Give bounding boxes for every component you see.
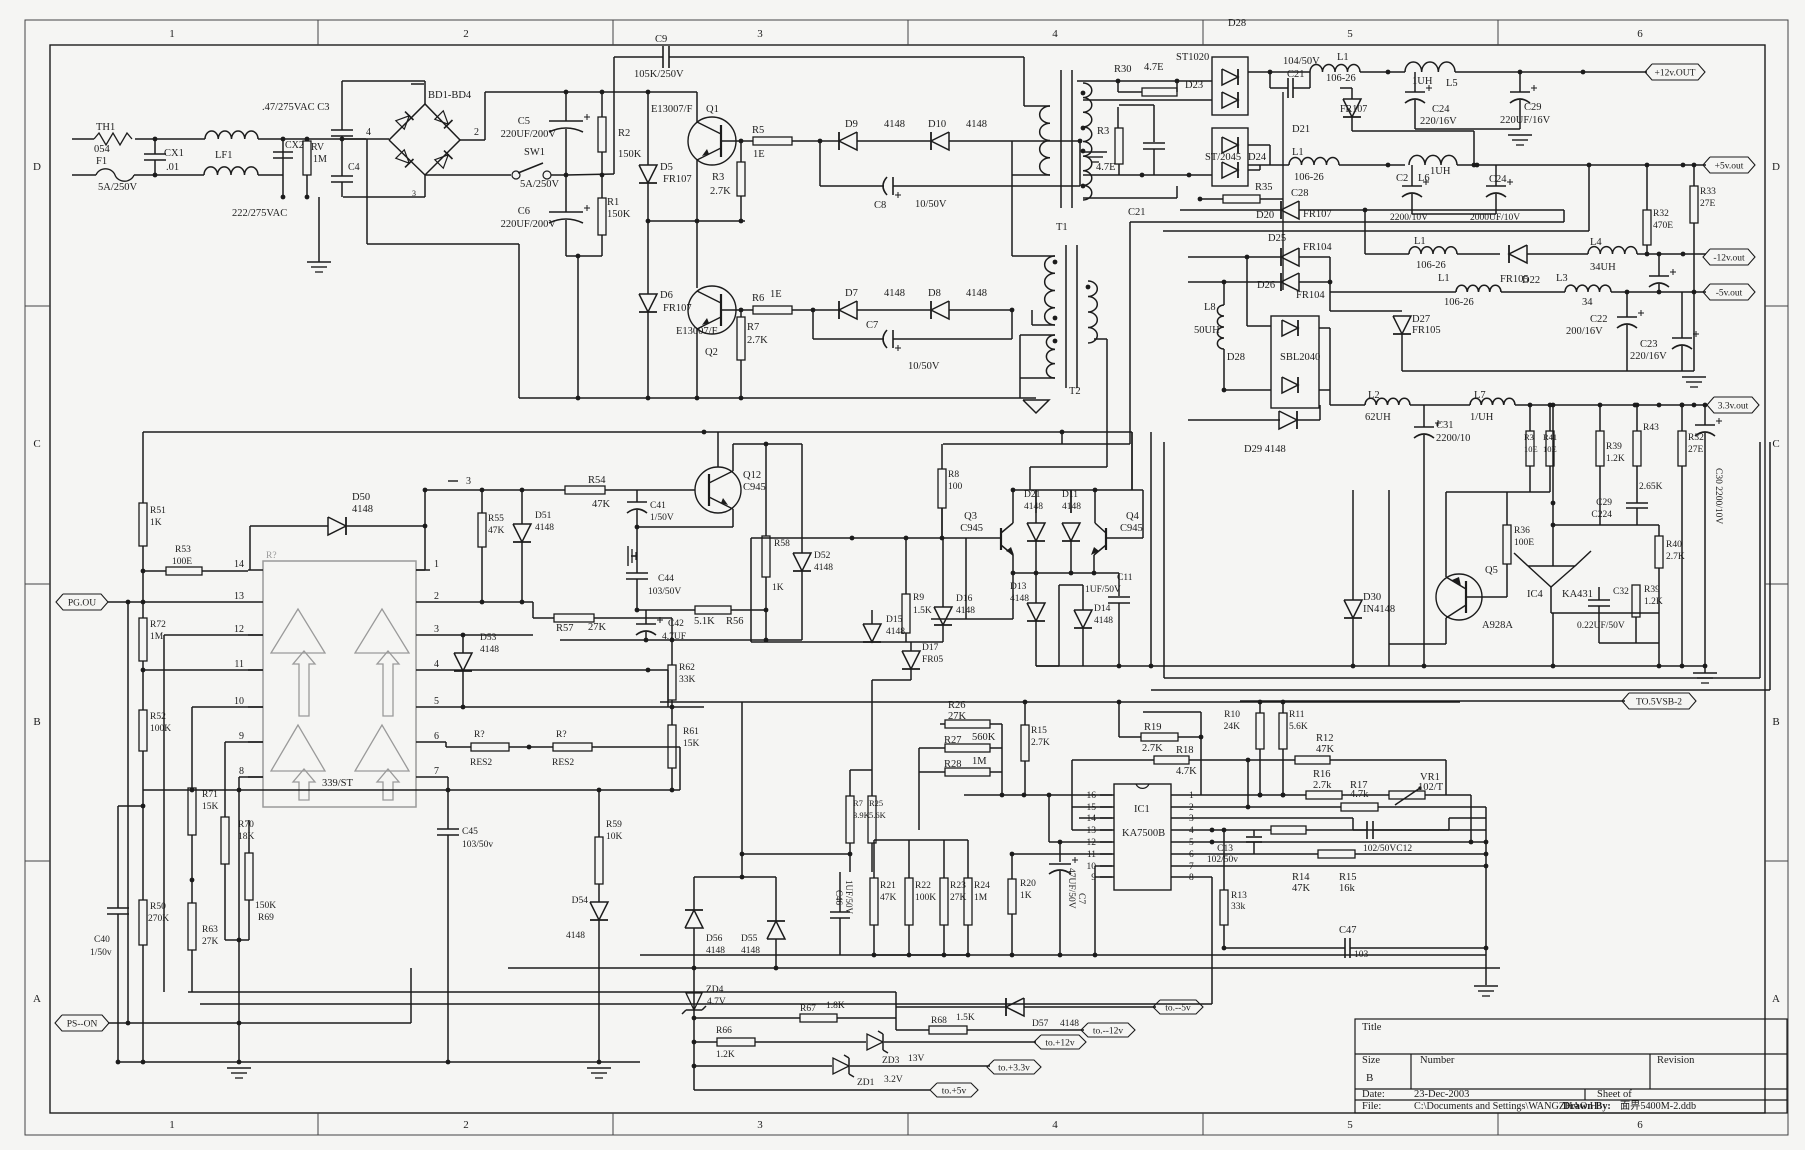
svg-text:6: 6 (434, 731, 439, 742)
svg-text:4148: 4148 (1094, 616, 1113, 626)
svg-text:100E: 100E (172, 557, 192, 567)
svg-text:103/50v: 103/50v (462, 840, 493, 850)
svg-text:13: 13 (1087, 826, 1097, 836)
svg-text:10: 10 (234, 696, 244, 707)
svg-text:R13: R13 (1231, 891, 1247, 901)
svg-text:ZD4: ZD4 (706, 985, 724, 995)
svg-text:D9: D9 (845, 119, 858, 130)
svg-text:ST/2045: ST/2045 (1205, 152, 1241, 163)
svg-text:4148: 4148 (1060, 1019, 1079, 1029)
svg-text:R68: R68 (931, 1016, 947, 1026)
svg-text:C9: C9 (655, 34, 667, 45)
svg-text:D29 4148: D29 4148 (1244, 444, 1286, 455)
svg-text:106-26: 106-26 (1444, 297, 1474, 308)
svg-text:3: 3 (434, 624, 439, 635)
svg-text:D10: D10 (928, 119, 946, 130)
svg-text:Revision: Revision (1657, 1055, 1695, 1066)
svg-text:C13: C13 (1217, 844, 1233, 854)
svg-text:4: 4 (1189, 826, 1194, 836)
svg-text:470E: 470E (1653, 221, 1673, 231)
svg-text:R27: R27 (944, 735, 962, 746)
svg-text:4: 4 (366, 127, 371, 138)
svg-text:D57: D57 (1032, 1019, 1049, 1029)
svg-text:C945: C945 (743, 482, 766, 493)
svg-text:11: 11 (234, 659, 244, 670)
svg-text:4148: 4148 (480, 645, 499, 655)
svg-text:R67: R67 (800, 1004, 816, 1014)
svg-text:RES2: RES2 (470, 758, 492, 768)
svg-text:3.2V: 3.2V (884, 1075, 903, 1085)
svg-text:D7: D7 (845, 288, 858, 299)
svg-text:1M: 1M (974, 893, 988, 903)
svg-text:4: 4 (434, 659, 439, 670)
svg-text:4148: 4148 (566, 931, 585, 941)
svg-text:R6: R6 (752, 293, 764, 304)
svg-text:R69: R69 (258, 913, 274, 923)
svg-text:R62: R62 (679, 663, 695, 673)
svg-text:Drawn By:: Drawn By: (1563, 1101, 1611, 1112)
svg-text:5: 5 (1189, 838, 1194, 848)
svg-text:E13007/F: E13007/F (676, 326, 718, 337)
svg-text:Q3: Q3 (964, 511, 977, 522)
svg-text:4148: 4148 (352, 504, 373, 515)
svg-text:102/50v: 102/50v (1207, 855, 1238, 865)
svg-text:C21: C21 (1128, 207, 1146, 218)
svg-text:ZD1: ZD1 (857, 1078, 875, 1088)
svg-text:8: 8 (239, 766, 244, 777)
svg-text:R35: R35 (1255, 182, 1273, 193)
svg-text:D6: D6 (660, 290, 673, 301)
svg-text:2: 2 (434, 591, 439, 602)
svg-text:to.--5v: to.--5v (1165, 1004, 1191, 1014)
svg-text:11: 11 (1087, 850, 1096, 860)
svg-text:R70: R70 (238, 820, 254, 830)
svg-text:C44: C44 (658, 574, 674, 584)
svg-text:R5: R5 (752, 125, 764, 136)
svg-text:.01: .01 (166, 162, 179, 173)
svg-text:D20: D20 (1256, 210, 1274, 221)
svg-text:33K: 33K (679, 675, 696, 685)
svg-text:2.65K: 2.65K (1639, 482, 1663, 492)
svg-text:3: 3 (412, 189, 416, 198)
svg-text:1: 1 (169, 1119, 175, 1131)
svg-text:D51: D51 (535, 511, 552, 521)
svg-text:054: 054 (94, 144, 111, 155)
svg-text:R15: R15 (1339, 872, 1357, 883)
svg-text:220UF/16V: 220UF/16V (1500, 115, 1551, 126)
svg-text:2.7K: 2.7K (1666, 552, 1685, 562)
svg-text:R7: R7 (853, 798, 863, 808)
svg-text:IC4: IC4 (1527, 589, 1544, 600)
svg-text:2.7K: 2.7K (1142, 743, 1163, 754)
svg-text:4148: 4148 (966, 288, 987, 299)
svg-text:ZD3: ZD3 (882, 1056, 900, 1066)
svg-text:R33: R33 (1700, 187, 1716, 197)
svg-text:102/T: 102/T (1418, 782, 1444, 793)
svg-text:4.7K: 4.7K (1176, 766, 1197, 777)
svg-text:T1: T1 (1056, 222, 1068, 233)
svg-text:4148: 4148 (1024, 502, 1043, 512)
svg-text:E13007/F: E13007/F (651, 104, 693, 115)
svg-text:L1: L1 (1414, 236, 1426, 247)
svg-text:27K: 27K (948, 711, 967, 722)
svg-text:4148: 4148 (814, 563, 833, 573)
svg-text:106-26: 106-26 (1326, 73, 1356, 84)
svg-text:3: 3 (757, 1119, 763, 1131)
svg-text:Number: Number (1420, 1055, 1455, 1066)
svg-text:4.7E: 4.7E (1096, 162, 1116, 173)
svg-text:TO.5VSB-2: TO.5VSB-2 (1636, 698, 1682, 708)
svg-text:R3: R3 (1097, 126, 1109, 137)
svg-text:47K: 47K (1316, 744, 1335, 755)
svg-text:150K: 150K (607, 209, 631, 220)
svg-text:6: 6 (1637, 28, 1643, 40)
svg-text:1.5K: 1.5K (913, 606, 932, 616)
svg-text:R57: R57 (556, 623, 574, 634)
svg-text:D56: D56 (706, 934, 723, 944)
svg-text:D: D (1772, 161, 1780, 173)
svg-text:C21: C21 (1287, 69, 1305, 80)
svg-text:1/UH: 1/UH (1470, 412, 1494, 423)
svg-text:220UF/200V: 220UF/200V (501, 129, 557, 140)
svg-text:D50: D50 (352, 492, 370, 503)
svg-text:R20: R20 (1020, 879, 1036, 889)
svg-text:5: 5 (1347, 1119, 1353, 1131)
svg-text:D27: D27 (1412, 314, 1430, 325)
svg-text:4148: 4148 (956, 606, 975, 616)
svg-text:C30 2200/10V: C30 2200/10V (1713, 468, 1723, 524)
svg-text:C945: C945 (960, 523, 983, 534)
svg-text:4: 4 (1052, 1119, 1058, 1131)
svg-text:R14: R14 (1292, 872, 1310, 883)
svg-text:R50: R50 (150, 902, 166, 912)
svg-text:C5: C5 (518, 116, 530, 127)
svg-text:8: 8 (1189, 873, 1194, 883)
svg-text:R22: R22 (915, 881, 931, 891)
svg-text:R58: R58 (774, 539, 790, 549)
svg-text:Date:: Date: (1362, 1089, 1385, 1100)
svg-text:R28: R28 (944, 759, 962, 770)
svg-text:L1: L1 (1292, 147, 1304, 158)
svg-text:Q1: Q1 (706, 104, 719, 115)
svg-text:LF1: LF1 (215, 150, 233, 161)
svg-text:1M: 1M (150, 632, 164, 642)
svg-text:D21: D21 (1024, 490, 1041, 500)
svg-text:R59: R59 (606, 820, 622, 830)
svg-text:C22: C22 (1590, 314, 1608, 325)
svg-text:1.5K: 1.5K (956, 1013, 975, 1023)
svg-text:to.+5v: to.+5v (942, 1087, 967, 1097)
svg-text:C45: C45 (462, 827, 478, 837)
svg-text:SW1: SW1 (524, 147, 545, 158)
svg-text:D5: D5 (660, 162, 673, 173)
svg-text:C7: C7 (866, 320, 878, 331)
svg-text:R39: R39 (1644, 585, 1660, 595)
svg-text:C: C (33, 438, 40, 450)
svg-text:+12v.OUT: +12v.OUT (1655, 69, 1696, 79)
svg-text:C40: C40 (94, 935, 110, 945)
svg-text:D24: D24 (1248, 152, 1267, 163)
svg-text:T2: T2 (1069, 386, 1081, 397)
svg-text:C29: C29 (1524, 102, 1542, 113)
svg-text:FR107: FR107 (663, 303, 692, 314)
svg-text:L2: L2 (1368, 390, 1380, 401)
svg-text:220/16V: 220/16V (1630, 351, 1667, 362)
svg-text:+5v.out: +5v.out (1715, 162, 1744, 172)
svg-text:Q2: Q2 (705, 347, 718, 358)
svg-text:1M: 1M (313, 154, 327, 165)
svg-text:27K: 27K (588, 622, 607, 633)
svg-text:100K: 100K (150, 724, 171, 734)
svg-text:File:: File: (1362, 1101, 1381, 1112)
svg-text:18K: 18K (238, 832, 255, 842)
svg-text:FR104: FR104 (1296, 290, 1325, 301)
svg-text:D22: D22 (1522, 275, 1540, 286)
svg-text:BD1-BD4: BD1-BD4 (428, 90, 472, 101)
svg-text:13: 13 (234, 591, 244, 602)
svg-text:R63: R63 (202, 925, 218, 935)
svg-text:4: 4 (1052, 28, 1058, 40)
svg-text:10E: 10E (1543, 444, 1557, 454)
svg-text:L1: L1 (1337, 52, 1349, 63)
svg-text:D30: D30 (1363, 592, 1381, 603)
svg-text:4148: 4148 (1010, 594, 1029, 604)
svg-text:220UF/200V: 220UF/200V (501, 219, 557, 230)
svg-text:2.7K: 2.7K (1031, 738, 1050, 748)
svg-text:PG.OU: PG.OU (68, 599, 96, 609)
svg-text:TH1: TH1 (96, 122, 115, 133)
svg-text:16k: 16k (1339, 883, 1356, 894)
svg-text:R?: R? (556, 730, 567, 740)
svg-text:2: 2 (463, 1119, 469, 1131)
svg-text:R3: R3 (712, 172, 724, 183)
svg-text:R30: R30 (1114, 64, 1132, 75)
svg-text:1.2K: 1.2K (1644, 597, 1663, 607)
svg-text:FR107: FR107 (1340, 104, 1367, 115)
svg-text:27E: 27E (1700, 199, 1716, 209)
svg-text:D25: D25 (1268, 233, 1286, 244)
svg-text:560K: 560K (972, 732, 996, 743)
svg-text:9: 9 (239, 731, 244, 742)
svg-text:IN4148: IN4148 (1363, 604, 1395, 615)
svg-text:0.22UF/50V: 0.22UF/50V (1577, 621, 1625, 631)
svg-text:15K: 15K (202, 802, 219, 812)
svg-text:14: 14 (1087, 814, 1097, 824)
svg-text:5.6K: 5.6K (869, 810, 887, 820)
svg-text:1M: 1M (972, 756, 987, 767)
svg-text:D13: D13 (1010, 582, 1027, 592)
svg-text:R39: R39 (1606, 442, 1622, 452)
svg-text:1UF/50V: 1UF/50V (1085, 585, 1121, 595)
svg-text:D11: D11 (1062, 490, 1078, 500)
svg-text:47K: 47K (1292, 883, 1311, 894)
svg-text:R?: R? (266, 551, 277, 561)
svg-text:1E: 1E (770, 289, 782, 300)
svg-text:4.7E: 4.7E (1144, 62, 1164, 73)
svg-text:R11: R11 (1289, 710, 1305, 720)
svg-text:C8: C8 (874, 200, 886, 211)
svg-text:D52: D52 (814, 551, 831, 561)
svg-text:1: 1 (434, 559, 439, 570)
svg-text:1K: 1K (772, 583, 784, 593)
svg-text:R40: R40 (1666, 540, 1682, 550)
svg-text:4148: 4148 (884, 119, 905, 130)
svg-text:C224: C224 (1591, 510, 1612, 520)
svg-text:.47/275VAC C3: .47/275VAC C3 (262, 102, 330, 113)
svg-text:1E: 1E (753, 149, 765, 160)
svg-text:Q5: Q5 (1485, 565, 1498, 576)
svg-text:R1: R1 (607, 197, 619, 208)
svg-text:R21: R21 (880, 881, 896, 891)
svg-text:2: 2 (463, 28, 469, 40)
svg-text:3: 3 (1189, 814, 1194, 824)
svg-text:47K: 47K (488, 526, 505, 536)
svg-text:2.7k: 2.7k (1313, 780, 1332, 791)
svg-text:R12: R12 (1316, 733, 1334, 744)
svg-text:100E: 100E (1514, 538, 1534, 548)
svg-text:4.7k: 4.7k (1350, 789, 1369, 800)
svg-text:to.+12v: to.+12v (1045, 1039, 1075, 1049)
svg-text:4.7V: 4.7V (707, 997, 726, 1007)
svg-text:R54: R54 (588, 475, 606, 486)
svg-text:50UH: 50UH (1194, 325, 1220, 336)
svg-text:FR107: FR107 (1303, 209, 1332, 220)
svg-text:面畀5400M-2.ddb: 面畀5400M-2.ddb (1620, 1100, 1696, 1112)
svg-text:RES2: RES2 (552, 758, 574, 768)
svg-text:C945: C945 (1120, 523, 1143, 534)
svg-text:C23: C23 (1640, 339, 1658, 350)
svg-text:L7: L7 (1474, 390, 1486, 401)
svg-text:6: 6 (1637, 1119, 1643, 1131)
svg-text:C4: C4 (348, 162, 360, 173)
svg-text:4148: 4148 (706, 946, 725, 956)
svg-text:C46: C46 (834, 890, 844, 906)
svg-text:R10: R10 (1224, 710, 1240, 720)
svg-text:C24: C24 (1432, 104, 1450, 115)
svg-text:to.--12v: to.--12v (1093, 1027, 1124, 1037)
svg-text:100: 100 (948, 482, 963, 492)
svg-text:KA7500B: KA7500B (1122, 828, 1165, 839)
svg-text:106-26: 106-26 (1294, 172, 1324, 183)
svg-text:Q4: Q4 (1126, 511, 1140, 522)
svg-text:B: B (1772, 716, 1779, 728)
svg-text:2: 2 (474, 127, 479, 138)
svg-text:D55: D55 (741, 934, 758, 944)
svg-text:C47: C47 (1339, 925, 1357, 936)
svg-text:D14: D14 (1094, 604, 1111, 614)
svg-text:1/50v: 1/50v (90, 948, 112, 958)
svg-text:12: 12 (1087, 838, 1097, 848)
svg-text:4148: 4148 (741, 946, 760, 956)
svg-text:R8: R8 (948, 470, 959, 480)
svg-text:D23: D23 (1185, 80, 1203, 91)
svg-text:R3: R3 (1524, 432, 1534, 442)
svg-text:150K: 150K (255, 901, 276, 911)
svg-text:PS--ON: PS--ON (67, 1020, 98, 1030)
svg-text:D21: D21 (1292, 124, 1310, 135)
svg-text:10/50V: 10/50V (908, 361, 940, 372)
svg-text:R36: R36 (1514, 526, 1530, 536)
svg-text:33k: 33k (1231, 902, 1246, 912)
svg-text:R19: R19 (1144, 722, 1162, 733)
svg-text:47UF/50V: 47UF/50V (1066, 868, 1076, 909)
svg-text:C28: C28 (1291, 188, 1309, 199)
svg-text:1/50V: 1/50V (650, 513, 674, 523)
svg-text:C6: C6 (518, 206, 530, 217)
svg-text:1K: 1K (1020, 891, 1032, 901)
svg-text:R2: R2 (618, 128, 630, 139)
svg-text:7: 7 (1189, 862, 1194, 872)
svg-text:2.7K: 2.7K (710, 186, 731, 197)
svg-text:27K: 27K (202, 937, 219, 947)
svg-text:R43: R43 (1643, 423, 1659, 433)
svg-text:B: B (1366, 1072, 1373, 1084)
svg-text:10K: 10K (606, 832, 623, 842)
svg-text:R24: R24 (974, 881, 990, 891)
svg-text:A: A (33, 993, 41, 1005)
svg-text:R72: R72 (150, 620, 166, 630)
svg-text:5A/250V: 5A/250V (520, 179, 560, 190)
svg-text:R18: R18 (1176, 745, 1194, 756)
svg-text:1UF/50V: 1UF/50V (844, 880, 854, 915)
svg-text:1: 1 (1189, 791, 1194, 801)
svg-text:3: 3 (757, 28, 763, 40)
svg-text:CX1: CX1 (164, 148, 184, 159)
svg-text:222/275VAC: 222/275VAC (232, 208, 287, 219)
svg-text:100K: 100K (915, 893, 936, 903)
svg-text:7: 7 (434, 766, 439, 777)
svg-text:C11: C11 (1117, 573, 1133, 583)
svg-text:5.1K: 5.1K (694, 616, 715, 627)
svg-text:C41: C41 (650, 501, 666, 511)
svg-text:L5: L5 (1446, 78, 1458, 89)
svg-text:A: A (1772, 993, 1780, 1005)
svg-text:4148: 4148 (886, 627, 905, 637)
svg-text:Q12: Q12 (743, 470, 761, 481)
svg-text:6: 6 (1189, 850, 1194, 860)
svg-text:D16: D16 (956, 594, 973, 604)
svg-text:200/16V: 200/16V (1566, 326, 1603, 337)
svg-text:FR104: FR104 (1303, 242, 1332, 253)
svg-text:2200/10: 2200/10 (1436, 433, 1470, 444)
svg-text:C: C (1772, 438, 1779, 450)
svg-text:D8: D8 (928, 288, 941, 299)
svg-text:to.+3.3v: to.+3.3v (998, 1064, 1030, 1074)
svg-text:D: D (33, 161, 41, 173)
svg-text:5A/250V: 5A/250V (98, 182, 138, 193)
svg-text:12: 12 (234, 624, 244, 635)
svg-text:R32: R32 (1653, 209, 1669, 219)
svg-text:L8: L8 (1204, 302, 1216, 313)
svg-text:C32: C32 (1613, 587, 1629, 597)
svg-text:1: 1 (169, 28, 175, 40)
svg-text:R25: R25 (869, 798, 883, 808)
svg-text:1.8K: 1.8K (826, 1001, 845, 1011)
svg-text:4148: 4148 (966, 119, 987, 130)
svg-text:3: 3 (466, 476, 471, 487)
svg-text:C29: C29 (1596, 498, 1612, 508)
svg-text:14: 14 (234, 559, 244, 570)
svg-text:2.7K: 2.7K (747, 335, 768, 346)
svg-text:D53: D53 (480, 633, 497, 643)
svg-text:23-Dec-2003: 23-Dec-2003 (1414, 1089, 1469, 1100)
svg-text:R55: R55 (488, 514, 504, 524)
svg-text:C31: C31 (1436, 420, 1454, 431)
svg-text:3.9K: 3.9K (853, 810, 871, 820)
svg-text:103/50V: 103/50V (648, 587, 681, 597)
svg-text:270K: 270K (148, 914, 169, 924)
svg-text:5: 5 (1347, 28, 1353, 40)
